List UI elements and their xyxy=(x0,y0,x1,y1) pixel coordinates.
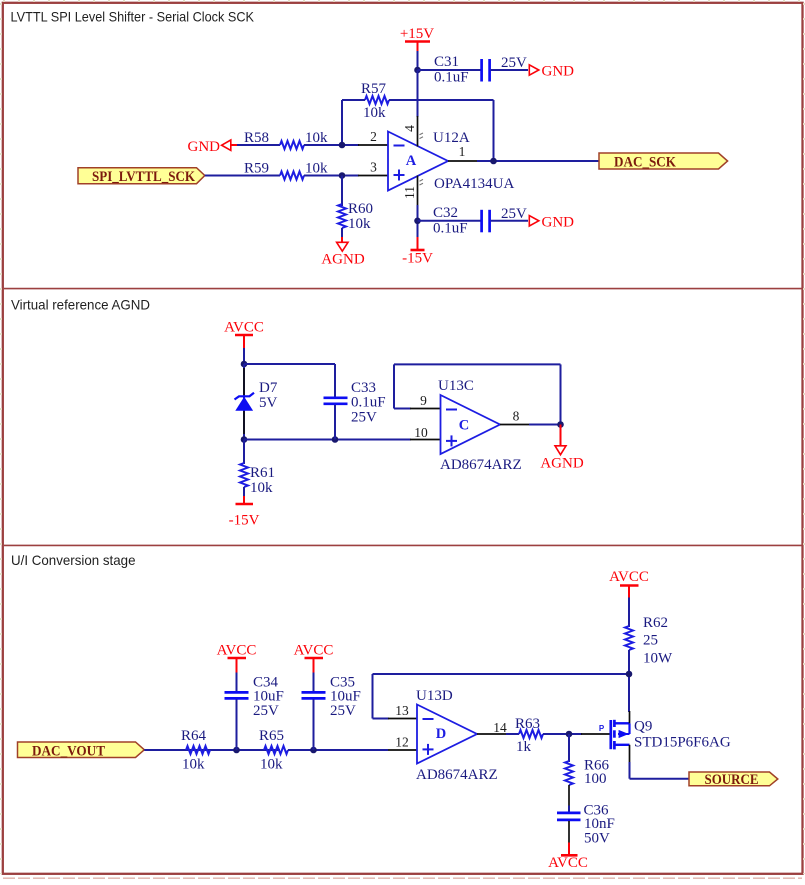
svg-text:10k: 10k xyxy=(250,480,273,496)
svg-text:GND: GND xyxy=(188,139,221,155)
node C35 junction xyxy=(310,747,317,754)
resistor R58 xyxy=(244,130,328,149)
resistor R57 xyxy=(361,81,389,121)
node inverting input xyxy=(339,142,346,149)
svg-text:AVCC: AVCC xyxy=(224,320,264,336)
node gate junction xyxy=(566,731,573,738)
svg-text:10: 10 xyxy=(414,425,428,440)
pin gate Q9 xyxy=(581,724,610,734)
svg-text:R64: R64 xyxy=(181,728,207,744)
pin 9 xyxy=(410,393,441,409)
svg-text:0.1uF: 0.1uF xyxy=(434,70,469,86)
svg-text:1k: 1k xyxy=(516,739,532,755)
svg-text:4: 4 xyxy=(402,125,417,132)
wire feedback left vertical xyxy=(341,100,343,145)
svg-text:R60: R60 xyxy=(348,201,373,217)
svg-text:-15V: -15V xyxy=(229,513,260,529)
right margin ruler ticks xyxy=(803,3,805,874)
wire U13D feedback left vertical xyxy=(372,674,374,719)
pin 1 xyxy=(448,144,478,161)
wire R59 to node xyxy=(304,175,359,177)
svg-text:10k: 10k xyxy=(363,105,386,121)
wire diode branch vertical xyxy=(243,364,245,440)
svg-text:STD15P6F6AG: STD15P6F6AG xyxy=(634,735,731,751)
svg-text:25V: 25V xyxy=(351,410,377,426)
power +15V xyxy=(400,26,434,52)
svg-text:Q9: Q9 xyxy=(634,719,652,735)
transistor Q9 xyxy=(611,719,731,751)
power AVCC sec2 xyxy=(224,320,264,350)
svg-text:10k: 10k xyxy=(348,216,371,232)
wire +15V to node xyxy=(417,51,419,70)
svg-text:10nF: 10nF xyxy=(584,816,615,832)
wire GND to R58 xyxy=(237,144,280,146)
wire feedback right horizontal xyxy=(389,99,494,101)
svg-text:LVTTL SPI Level Shifter - Seri: LVTTL SPI Level Shifter - Serial Clock S… xyxy=(11,9,255,25)
power AVCC below C36 xyxy=(548,843,588,871)
op-amp U12A xyxy=(388,130,514,192)
wire node to R66 xyxy=(568,734,570,762)
svg-text:25V: 25V xyxy=(253,703,279,719)
left margin ruler ticks xyxy=(0,3,2,874)
op-amp U13C xyxy=(438,378,522,473)
svg-text:100: 100 xyxy=(584,771,607,787)
capacitor C31 xyxy=(434,54,527,86)
pin 14 xyxy=(477,720,507,735)
pin 3 xyxy=(358,160,388,176)
svg-text:DAC_VOUT: DAC_VOUT xyxy=(32,743,105,759)
svg-text:GND: GND xyxy=(542,64,575,80)
svg-text:25V: 25V xyxy=(501,206,527,222)
pin drain Q9 xyxy=(629,711,631,723)
svg-text:Virtual reference AGND: Virtual reference AGND xyxy=(11,297,150,313)
pin 2 xyxy=(358,129,388,145)
wire U13C feedback left vertical xyxy=(393,364,395,408)
resistor R63 xyxy=(515,716,543,755)
svg-text:D: D xyxy=(436,726,446,742)
svg-text:13: 13 xyxy=(395,703,409,718)
op-amp U13D xyxy=(416,688,498,783)
svg-text:10k: 10k xyxy=(182,757,205,773)
port SOURCE xyxy=(689,772,778,788)
pin 8 xyxy=(500,409,530,425)
wire R65 to pin12 xyxy=(288,749,388,751)
resistor R62 xyxy=(625,615,673,667)
wire pin9 stub xyxy=(394,408,411,410)
svg-text:12: 12 xyxy=(395,735,409,750)
svg-text:AGND: AGND xyxy=(540,456,583,472)
node lower-left junction xyxy=(241,436,248,443)
svg-text:U/I Conversion stage: U/I Conversion stage xyxy=(11,552,136,568)
svg-text:OPA4134UA: OPA4134UA xyxy=(434,176,514,192)
wire AVCC to R62 xyxy=(628,598,630,628)
node drain junction xyxy=(626,671,633,678)
svg-text:10k: 10k xyxy=(305,130,328,146)
capacitor C35 xyxy=(302,673,361,751)
section divider 2 xyxy=(4,544,802,546)
svg-text:A: A xyxy=(406,153,417,169)
svg-text:AVCC: AVCC xyxy=(217,643,257,659)
resistor R66 xyxy=(565,758,610,788)
svg-text:R57: R57 xyxy=(361,81,387,97)
svg-text:25V: 25V xyxy=(330,703,356,719)
svg-text:25V: 25V xyxy=(501,55,527,71)
svg-text:25: 25 xyxy=(643,633,658,649)
svg-text:10k: 10k xyxy=(260,757,283,773)
node AGND junction xyxy=(557,421,564,428)
pin 13 xyxy=(388,703,417,719)
wire feedback right vertical xyxy=(493,100,495,161)
capacitor C32 xyxy=(433,205,527,237)
svg-text:R61: R61 xyxy=(250,465,275,481)
wire R62 to drain node xyxy=(628,650,630,712)
resistor R61 xyxy=(240,440,275,498)
resistor R65 xyxy=(259,728,288,773)
resistor R59 xyxy=(244,161,328,180)
svg-text:AD8674ARZ: AD8674ARZ xyxy=(440,457,522,473)
power AVCC at C34 xyxy=(217,643,257,674)
wire U13C feedback right vertical xyxy=(560,364,562,424)
wire top to C33 xyxy=(244,363,335,365)
pin R66 to C36 xyxy=(568,785,570,807)
power AGND sec2 xyxy=(540,425,583,472)
wire U13D feedback top xyxy=(373,673,630,675)
power AVCC at C35 xyxy=(294,643,334,674)
svg-text:AVCC: AVCC xyxy=(548,855,588,871)
svg-text:2: 2 xyxy=(370,129,377,144)
wire pin11 to C32 node xyxy=(417,205,419,238)
capacitor C36 xyxy=(557,803,615,847)
svg-text:0.1uF: 0.1uF xyxy=(433,221,468,237)
svg-text:9: 9 xyxy=(420,393,427,408)
wire port to R64 xyxy=(144,749,280,751)
wire R58 to node xyxy=(304,144,359,146)
node C34 junction xyxy=(233,747,240,754)
wire R60 to AGND xyxy=(341,228,343,238)
power GND at R58 xyxy=(188,139,239,155)
svg-text:+15V: +15V xyxy=(400,26,434,42)
power GND at C32 xyxy=(529,215,574,231)
wire source to port xyxy=(630,778,690,780)
diode D7 xyxy=(235,368,278,434)
svg-text:10k: 10k xyxy=(305,161,328,177)
svg-text:AGND: AGND xyxy=(321,252,364,268)
pin 10 xyxy=(410,425,441,440)
port SPI_LVTTL_SCK xyxy=(78,168,205,185)
svg-text:C: C xyxy=(459,418,469,434)
power AGND below R60 xyxy=(321,237,364,268)
wire C31 left xyxy=(418,69,481,71)
svg-text:C31: C31 xyxy=(434,54,459,70)
port DAC_VOUT xyxy=(18,742,145,759)
svg-text:R58: R58 xyxy=(244,130,269,146)
pin 12 xyxy=(388,735,417,751)
svg-text:R62: R62 xyxy=(643,615,668,631)
pin 11 xyxy=(402,176,423,207)
pin 4 xyxy=(402,116,423,147)
svg-text:8: 8 xyxy=(513,409,520,424)
wire pin14 to R63 xyxy=(506,733,519,735)
svg-text:1: 1 xyxy=(459,144,466,159)
capacitor C34 xyxy=(225,673,284,751)
svg-text:R59: R59 xyxy=(244,161,269,177)
wire C32 left xyxy=(418,220,481,222)
power -15V sec2 xyxy=(229,496,260,529)
pin source Q9 xyxy=(629,745,631,763)
node output junction xyxy=(490,158,497,165)
wire port to R59 xyxy=(205,175,280,177)
svg-text:U13C: U13C xyxy=(438,378,474,394)
svg-text:SOURCE: SOURCE xyxy=(705,772,759,788)
wire C31 right xyxy=(491,69,528,71)
wire pin8 to node xyxy=(529,424,561,426)
top margin ruler ticks xyxy=(3,0,802,2)
svg-text:DAC_SCK: DAC_SCK xyxy=(614,154,676,170)
svg-text:AD8674ARZ: AD8674ARZ xyxy=(416,767,498,783)
power AVCC at R62 xyxy=(609,569,649,599)
svg-text:5V: 5V xyxy=(259,395,278,411)
svg-text:AVCC: AVCC xyxy=(294,643,334,659)
svg-text:GND: GND xyxy=(542,215,575,231)
capacitor C33 xyxy=(324,380,386,440)
svg-text:U13D: U13D xyxy=(416,688,453,704)
node AVCC junction xyxy=(241,361,248,368)
port DAC_SCK xyxy=(599,153,728,170)
node C33 bottom junction xyxy=(332,436,339,443)
svg-text:SPI_LVTTL_SCK: SPI_LVTTL_SCK xyxy=(92,169,195,185)
svg-text:R63: R63 xyxy=(515,716,540,732)
wire node to R60 xyxy=(341,176,343,207)
wire node down to pin4 xyxy=(417,70,419,117)
section divider 1 xyxy=(4,288,802,290)
svg-text:11: 11 xyxy=(402,186,417,199)
wire C33 upper vertical xyxy=(334,364,336,397)
power GND at C31 xyxy=(529,64,574,80)
power -15V xyxy=(402,237,433,267)
svg-text:R65: R65 xyxy=(259,728,284,744)
svg-text:3: 3 xyxy=(370,160,377,175)
node noninverting input xyxy=(339,172,346,179)
svg-text:14: 14 xyxy=(493,720,507,735)
wire lower horizontal to pin10 xyxy=(244,439,411,441)
svg-text:50V: 50V xyxy=(584,831,610,847)
wire AVCC to node xyxy=(243,348,245,364)
svg-text:C32: C32 xyxy=(433,205,458,221)
wire pin13 stub xyxy=(373,718,390,720)
svg-text:10W: 10W xyxy=(643,651,673,667)
wire feedback left horizontal xyxy=(342,99,365,101)
svg-text:0.1uF: 0.1uF xyxy=(351,395,386,411)
wire C32 right xyxy=(491,220,528,222)
svg-text:D7: D7 xyxy=(259,380,278,396)
svg-text:P: P xyxy=(599,724,605,733)
resistor R64 xyxy=(181,728,210,773)
node C32 junction xyxy=(414,218,421,225)
wire R63 to gate node xyxy=(543,733,582,735)
bottom margin ruler line xyxy=(3,877,802,879)
resistor R60 xyxy=(338,201,373,232)
node +15V junction xyxy=(414,67,421,74)
wire output to port xyxy=(477,160,599,162)
svg-text:AVCC: AVCC xyxy=(609,569,649,585)
wire U13C feedback top xyxy=(394,363,561,365)
wire source down xyxy=(629,762,631,779)
svg-text:-15V: -15V xyxy=(402,251,433,267)
